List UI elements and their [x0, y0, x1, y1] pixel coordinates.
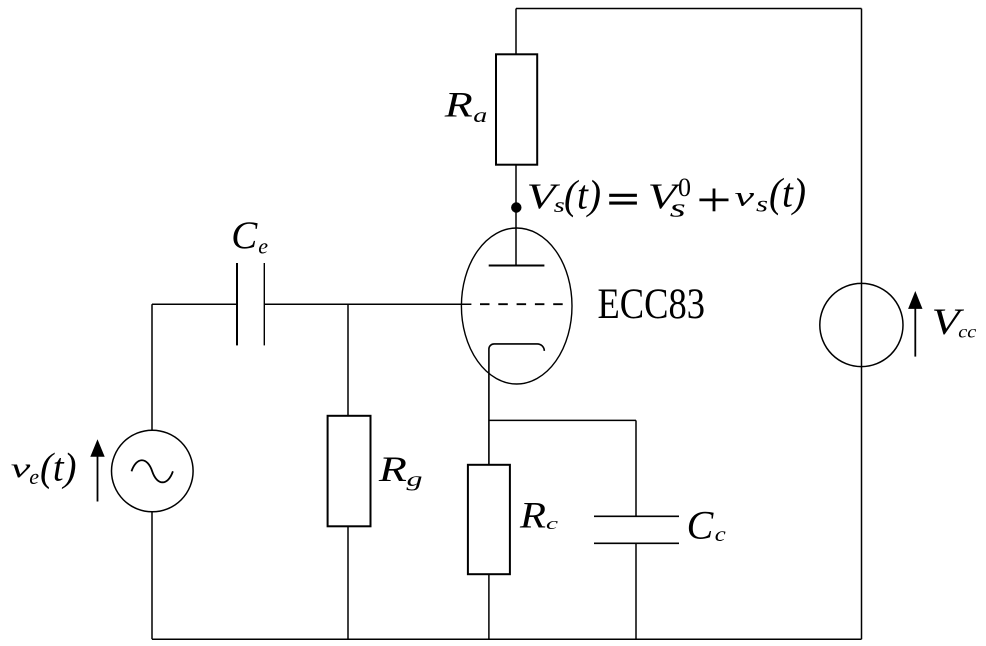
wire right rail [861, 9, 863, 640]
wire Rg top lead [347, 304, 349, 416]
svg-text:c: c [715, 524, 726, 546]
svg-text:g: g [407, 467, 423, 491]
svg-text:e: e [258, 233, 268, 258]
svg-text:a: a [473, 103, 487, 127]
svg-text:C: C [687, 502, 715, 547]
wire bottom rail [152, 638, 862, 640]
label Cc [687, 502, 726, 547]
cathode with lead [489, 344, 544, 465]
svg-text:cc: cc [958, 322, 976, 342]
wire Ce to grid [265, 303, 472, 305]
svg-text:s: s [756, 191, 768, 216]
wire Rg bottom lead [347, 526, 349, 639]
anode plate [489, 265, 545, 267]
svg-text:(t): (t) [40, 445, 77, 490]
label Rg [378, 449, 423, 491]
wire cathode branch horizontal [489, 419, 636, 421]
sine symbol inside ve [132, 460, 173, 482]
wire Ra to anode [515, 165, 517, 266]
svg-text:ECC83: ECC83 [598, 281, 706, 328]
wire top rail [516, 8, 862, 10]
wire left rail lower [151, 512, 153, 640]
svg-text:e: e [29, 464, 39, 489]
label ve(t) [11, 445, 77, 490]
svg-text:v: v [735, 182, 755, 212]
arrow for Vcc [914, 308, 916, 357]
svg-text:(t): (t) [564, 172, 601, 218]
svg-text:R: R [519, 496, 546, 537]
svg-text:s: s [670, 193, 686, 222]
capacitor Cc plates [594, 516, 679, 543]
label Vcc [932, 301, 977, 342]
resistor R1 Ra [496, 54, 537, 164]
voltage source ve(t) circle [112, 430, 194, 512]
wire Rc bottom lead [488, 574, 490, 639]
svg-text:R: R [444, 85, 473, 125]
wire Cc bottom lead [635, 543, 637, 639]
label Ra [444, 85, 488, 127]
svg-text:v: v [11, 453, 31, 483]
resistor R2 Rg [328, 416, 371, 527]
resistor R3 Rc [468, 465, 510, 574]
wire left rail upper [151, 304, 153, 430]
svg-text:c: c [546, 514, 559, 533]
label Ce [231, 214, 268, 258]
svg-text:C: C [231, 214, 258, 257]
wire Ra top lead [515, 9, 517, 56]
wire Cc top lead [635, 420, 637, 516]
label Rc [519, 496, 559, 537]
grid dashed line [480, 303, 563, 305]
wire mid left (to Ce) [152, 303, 237, 305]
svg-text:R: R [378, 449, 407, 489]
svg-text:(t): (t) [769, 170, 806, 216]
voltage source Vcc circle [820, 283, 903, 366]
label node voltage formula [527, 170, 807, 223]
capacitor Ce plates [237, 263, 264, 345]
op-amp U1 triode tube ECC83 envelope [461, 228, 572, 384]
node A output node dot [511, 202, 521, 212]
arrow for ve(t) [97, 455, 99, 502]
